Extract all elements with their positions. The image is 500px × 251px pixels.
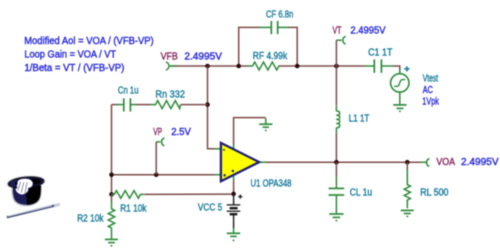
junction at VFB rail / VT node: [334, 64, 339, 69]
svg-text:R1 10k: R1 10k: [120, 204, 147, 215]
junction minus branch / Cn-Rn branch: [205, 102, 210, 107]
op-amp U1 V+ pin stub: [233, 175, 235, 181]
node VOA marker: [427, 159, 430, 167]
svg-text:Cn 1u: Cn 1u: [118, 86, 139, 97]
junction VP tap: [154, 172, 159, 177]
resistor R1: [112, 191, 145, 199]
svg-text:VP: VP: [153, 127, 162, 138]
resistor R2: [108, 201, 114, 239]
capacitor C1: [365, 59, 393, 72]
svg-text:2.4995V: 2.4995V: [184, 52, 222, 63]
junction at VFB rail / CF right: [295, 64, 300, 69]
svg-text:CL 1u: CL 1u: [350, 187, 373, 198]
plus polarity mark of VCC: [238, 195, 242, 199]
svg-text:VFB: VFB: [161, 52, 178, 63]
junction VCC / op-amp supply: [231, 192, 236, 197]
wire: CL branch: [335, 162, 337, 176]
ground at op-amp V-: [259, 124, 272, 130]
op-amp U1 body: [221, 143, 259, 181]
wire: L1 branch vertical top: [335, 66, 337, 105]
ground at Vtest: [393, 105, 406, 111]
wire: Cn-Rn branch segments: [112, 104, 118, 106]
wire: Vtest to ground: [399, 92, 401, 105]
plus polarity mark of Vtest: [404, 66, 409, 71]
capacitor Cn: [117, 98, 137, 111]
wire: VFB rail right segment (RF right lead to VT junction): [279, 65, 365, 67]
svg-text:1/Beta = VT / (VFB-VP): 1/Beta = VT / (VFB-VP): [24, 63, 124, 74]
svg-text:Loop Gain = VOA / VT: Loop Gain = VOA / VT: [24, 50, 116, 61]
svg-text:Vtest: Vtest: [423, 73, 439, 84]
wire: green stub V- pin: [233, 144, 235, 149]
svg-text:Rn 332: Rn 332: [155, 90, 185, 101]
wire: CF loop right vertical: [288, 27, 297, 66]
op-amp minus input mark: [223, 149, 225, 151]
wire: green drop into Vtest: [399, 69, 401, 74]
svg-text:VOA: VOA: [436, 157, 455, 168]
magic wand: [7, 204, 60, 217]
svg-text:2.4995V: 2.4995V: [350, 25, 386, 36]
svg-text:2.4995V: 2.4995V: [461, 157, 499, 168]
svg-text:CF 6.8n: CF 6.8n: [266, 9, 293, 20]
battery VCC: [227, 194, 241, 228]
op-amp U1 input stubs: [214, 148, 221, 150]
wire: minus input branch vertical: [208, 66, 215, 149]
svg-text:2.5V: 2.5V: [171, 127, 191, 138]
junction output rail / L1-CL: [334, 160, 339, 165]
annotation text: formulas: [24, 36, 154, 74]
op-amp V+ supply mark: [232, 170, 235, 173]
junction left rail / plus input: [109, 172, 114, 177]
node VFB marker: [166, 62, 169, 70]
wire: CF loop left vertical: [239, 27, 260, 66]
wire: green drop to ground: [265, 118, 267, 124]
svg-text:VCC 5: VCC 5: [198, 203, 223, 214]
source Vtest: [391, 74, 409, 92]
node VP marker: [156, 138, 164, 146]
node VT marker: [336, 36, 345, 44]
decorative magician hat logo: [7, 175, 60, 217]
wire: plus input rail: [112, 174, 215, 176]
wire: op-amp V+ pin to VCC junction: [233, 181, 235, 194]
ground at RL: [401, 210, 414, 216]
junction at VFB rail / minus branch: [205, 64, 210, 69]
resistor RL: [404, 169, 410, 208]
junction left rail / R1: [109, 192, 114, 197]
resistor Rn: [150, 101, 181, 109]
wire: VFB rail left segment: [170, 65, 247, 67]
op-amp plus input mark: [223, 174, 226, 177]
junction at VFB rail / CF left: [236, 64, 241, 69]
svg-text:AC: AC: [423, 85, 433, 96]
ground at CL: [329, 214, 343, 221]
wire: VP tap vertical: [155, 142, 157, 175]
wire: RL branch: [406, 162, 408, 170]
wire: op-amp V- pin to ground: [234, 118, 266, 145]
resistor RF: [247, 62, 279, 70]
svg-text:U1 OPA348: U1 OPA348: [251, 178, 292, 189]
ground at R2: [105, 239, 118, 245]
junction output rail / RL: [405, 160, 410, 165]
wire: R2 stub: [111, 194, 113, 201]
svg-text:1Vpk: 1Vpk: [422, 97, 439, 108]
ground at VCC: [227, 228, 240, 240]
wire: L1 to output rail: [335, 133, 337, 162]
svg-text:L1 1T: L1 1T: [349, 114, 370, 125]
capacitor CL: [329, 176, 345, 214]
capacitor CF: [259, 21, 289, 34]
svg-text:RF 4.99k: RF 4.99k: [253, 51, 288, 62]
svg-text:VT: VT: [333, 25, 342, 36]
inductor L1: [336, 106, 339, 134]
wire: left vertical rail: [111, 105, 113, 195]
wire: R1 rail: [145, 193, 234, 195]
wire: C1 to Vtest: [393, 66, 400, 70]
wire: green stub at VFB: [170, 65, 177, 67]
wire: output rail: [267, 161, 421, 163]
svg-text:Modified Aol = VOA / (VFB-VP): Modified Aol = VOA / (VFB-VP): [24, 36, 154, 47]
svg-text:RL 500: RL 500: [420, 187, 448, 198]
wire: VT stub: [335, 40, 337, 66]
wire: green stub at VOA: [421, 161, 426, 163]
svg-text:C1 1T: C1 1T: [368, 47, 392, 58]
svg-text:R2 10k: R2 10k: [77, 214, 104, 225]
op-amp U1 output stub: [259, 161, 266, 163]
